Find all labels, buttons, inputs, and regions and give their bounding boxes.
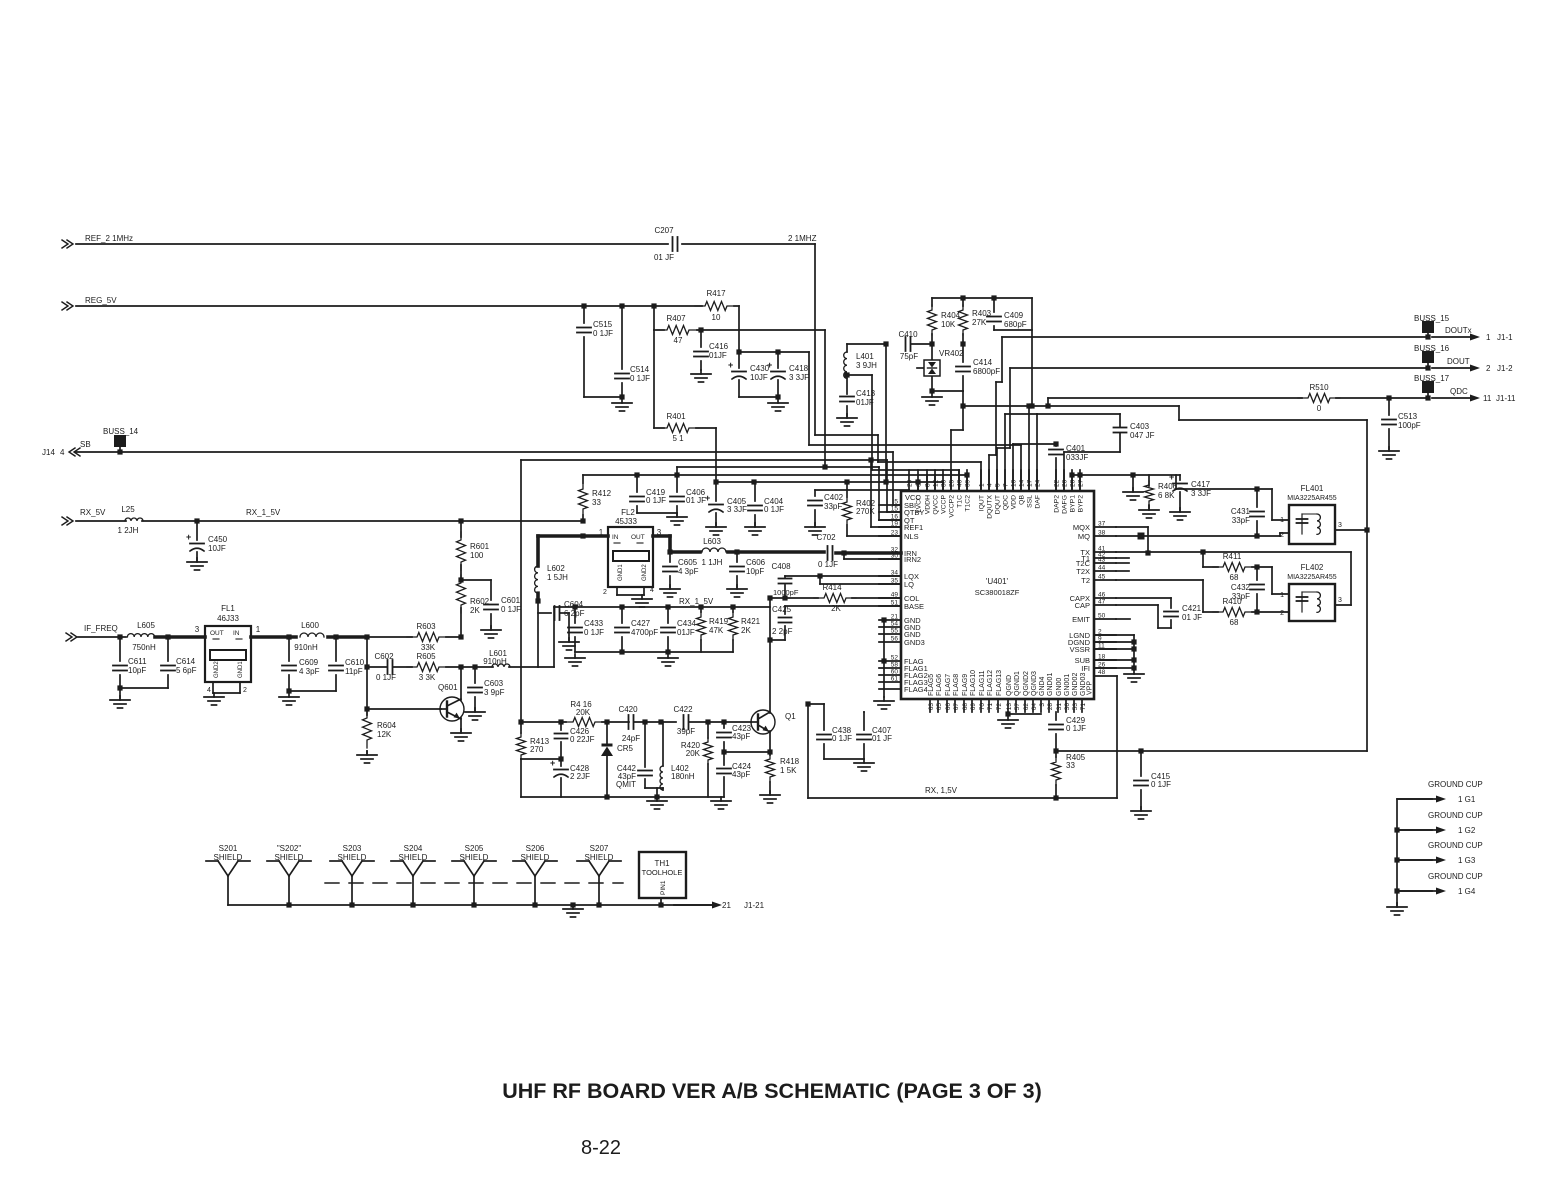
svg-text:75pF: 75pF: [900, 352, 918, 361]
svg-text:C434: C434: [677, 619, 697, 628]
svg-text:100pF: 100pF: [1398, 421, 1421, 430]
svg-text:SC380018ZF: SC380018ZF: [975, 588, 1020, 597]
svg-text:GND02: GND02: [1072, 673, 1079, 696]
svg-text:2: 2: [243, 687, 247, 694]
svg-text:J14: J14: [42, 448, 55, 457]
svg-text:39pF: 39pF: [677, 727, 695, 736]
svg-text:2: 2: [1280, 610, 1284, 617]
svg-text:TH1: TH1: [654, 859, 670, 868]
svg-text:1: 1: [979, 483, 986, 487]
svg-text:047 JF: 047 JF: [1130, 431, 1155, 440]
svg-text:47: 47: [674, 336, 683, 345]
svg-text:DOUTx: DOUTx: [1445, 326, 1472, 335]
svg-text:GND1: GND1: [618, 564, 624, 581]
svg-text:SHIELD: SHIELD: [521, 853, 550, 862]
svg-text:C450: C450: [208, 535, 228, 544]
svg-text:36: 36: [1064, 703, 1071, 711]
svg-text:DQUT: DQUT: [995, 495, 1002, 514]
svg-text:R605: R605: [416, 652, 436, 661]
svg-text:C513: C513: [1398, 412, 1418, 421]
svg-text:C605: C605: [678, 558, 698, 567]
svg-text:R421: R421: [741, 617, 761, 626]
svg-text:R414: R414: [822, 583, 842, 592]
svg-text:2 2pF: 2 2pF: [772, 627, 793, 636]
svg-text:0 1JF: 0 1JF: [818, 560, 838, 569]
svg-text:SHIELD: SHIELD: [214, 853, 243, 862]
svg-text:IQUT: IQUT: [979, 495, 986, 511]
svg-text:10JF: 10JF: [750, 373, 768, 382]
svg-text:GND1: GND1: [238, 661, 244, 678]
svg-text:7: 7: [1003, 483, 1010, 487]
svg-text:3 3JF: 3 3JF: [727, 505, 747, 514]
svg-text:01JF: 01JF: [709, 351, 727, 360]
svg-text:CAP: CAP: [1075, 601, 1090, 610]
svg-text:68: 68: [962, 703, 969, 711]
svg-text:62: 62: [1023, 703, 1030, 711]
svg-text:DOUT: DOUT: [1447, 357, 1470, 366]
svg-text:C414: C414: [973, 358, 993, 367]
svg-text:QGND2: QGND2: [1023, 671, 1030, 696]
svg-text:J1-2: J1-2: [1497, 364, 1513, 373]
svg-text:33pF: 33pF: [1232, 516, 1250, 525]
svg-text:R417: R417: [706, 289, 726, 298]
svg-text:R407: R407: [666, 314, 686, 323]
svg-text:C402: C402: [824, 493, 844, 502]
svg-text:1 G3: 1 G3: [1458, 856, 1476, 865]
svg-text:28: 28: [1047, 703, 1054, 711]
svg-text:GN00: GN00: [1056, 678, 1063, 696]
svg-text:QDC: QDC: [1450, 387, 1468, 396]
svg-text:33: 33: [1066, 761, 1075, 770]
svg-text:10K: 10K: [941, 320, 956, 329]
svg-text:S205: S205: [465, 844, 484, 853]
svg-text:C606: C606: [746, 558, 766, 567]
svg-text:C427: C427: [631, 619, 651, 628]
svg-text:RX, 1,5V: RX, 1,5V: [925, 786, 958, 795]
svg-text:Q601: Q601: [438, 683, 458, 692]
svg-text:S203: S203: [343, 844, 362, 853]
svg-text:R419: R419: [709, 617, 729, 626]
svg-text:01 JF: 01 JF: [654, 253, 674, 262]
svg-text:270K: 270K: [856, 507, 875, 516]
svg-text:IF_FREQ: IF_FREQ: [84, 624, 118, 633]
svg-text:0 1JF: 0 1JF: [630, 374, 650, 383]
svg-text:43pF: 43pF: [732, 770, 750, 779]
svg-text:2: 2: [603, 589, 607, 596]
svg-text:RX_1_5V: RX_1_5V: [246, 508, 281, 517]
svg-text:VCCP2: VCCP2: [949, 495, 956, 518]
svg-text:S206: S206: [526, 844, 545, 853]
svg-text:27K: 27K: [972, 318, 987, 327]
svg-text:OUT: OUT: [210, 630, 224, 637]
svg-text:12: 12: [933, 479, 940, 487]
svg-text:R412: R412: [592, 489, 612, 498]
svg-text:QGND: QGND: [1006, 675, 1013, 696]
svg-text:L605: L605: [137, 621, 155, 630]
svg-text:33: 33: [592, 498, 601, 507]
svg-text:C702: C702: [816, 533, 836, 542]
svg-text:BUSS_14: BUSS_14: [103, 427, 139, 436]
svg-text:11pF: 11pF: [345, 667, 363, 676]
svg-text:DAFG: DAFG: [1062, 495, 1069, 514]
svg-text:71: 71: [987, 703, 994, 711]
svg-text:"S202": "S202": [277, 844, 302, 853]
svg-text:66: 66: [945, 703, 952, 711]
svg-text:C420: C420: [618, 705, 638, 714]
svg-text:6800pF: 6800pF: [973, 367, 1000, 376]
svg-text:FLAG12: FLAG12: [987, 670, 994, 696]
svg-text:13: 13: [1006, 703, 1013, 711]
svg-text:0 22JF: 0 22JF: [570, 735, 595, 744]
svg-text:T2: T2: [1081, 576, 1090, 585]
svg-text:NLS: NLS: [904, 532, 919, 541]
svg-text:71: 71: [1080, 703, 1087, 711]
svg-text:C611: C611: [128, 657, 147, 666]
svg-text:6 8K: 6 8K: [1158, 491, 1175, 500]
svg-text:GROUND CUP: GROUND CUP: [1428, 811, 1483, 820]
svg-text:QGND3: QGND3: [1031, 671, 1038, 696]
svg-text:VSSR: VSSR: [1070, 645, 1091, 654]
svg-text:1 1JH: 1 1JH: [702, 558, 723, 567]
svg-text:3: 3: [1338, 597, 1342, 604]
svg-text:1 G1: 1 G1: [1458, 795, 1476, 804]
svg-text:BYP1: BYP1: [1070, 495, 1077, 513]
svg-text:REF_2 1MHz: REF_2 1MHz: [85, 234, 133, 243]
svg-text:17: 17: [1027, 479, 1034, 487]
svg-text:910nH: 910nH: [294, 643, 318, 652]
svg-text:20: 20: [1062, 479, 1069, 487]
svg-text:R601: R601: [470, 542, 490, 551]
svg-text:R410: R410: [1222, 597, 1242, 606]
svg-text:0 1JF: 0 1JF: [1151, 780, 1171, 789]
svg-text:IFI: IFI: [1081, 664, 1090, 673]
svg-text:3 3JF: 3 3JF: [789, 373, 809, 382]
svg-text:0 1JF: 0 1JF: [501, 605, 521, 614]
svg-text:FLAG9: FLAG9: [962, 674, 969, 696]
svg-text:C433: C433: [584, 619, 604, 628]
svg-text:VCCP: VCCP: [941, 495, 948, 514]
svg-text:33pF: 33pF: [824, 502, 842, 511]
svg-text:3 9JH: 3 9JH: [856, 361, 877, 370]
svg-text:4: 4: [60, 448, 65, 457]
svg-text:S207: S207: [590, 844, 609, 853]
svg-text:0 1JF: 0 1JF: [584, 628, 604, 637]
svg-text:+: +: [186, 532, 191, 542]
svg-text:70: 70: [979, 703, 986, 711]
svg-text:C207: C207: [654, 226, 674, 235]
svg-text:J1-11: J1-11: [1496, 394, 1516, 403]
svg-text:01 JF: 01 JF: [686, 496, 706, 505]
svg-text:1 G2: 1 G2: [1458, 826, 1476, 835]
svg-text:10pF: 10pF: [128, 666, 146, 675]
svg-text:01JF: 01JF: [677, 628, 695, 637]
svg-text:3: 3: [1039, 703, 1046, 707]
svg-text:63: 63: [928, 703, 935, 711]
svg-text:QB: QB: [1019, 495, 1026, 505]
svg-text:5: 5: [995, 483, 1002, 487]
svg-text:SHIELD: SHIELD: [275, 853, 304, 862]
svg-text:MQX: MQX: [1073, 523, 1090, 532]
svg-text:C431: C431: [1231, 507, 1251, 516]
svg-text:01 JF: 01 JF: [1182, 613, 1202, 622]
svg-text:C422: C422: [673, 705, 693, 714]
svg-text:0 1JF: 0 1JF: [646, 496, 666, 505]
svg-text:L602: L602: [547, 564, 565, 573]
svg-text:FLAG11: FLAG11: [979, 670, 986, 696]
svg-text:40: 40: [957, 479, 964, 487]
svg-text:FLAG5: FLAG5: [928, 674, 935, 696]
svg-text:1 G4: 1 G4: [1458, 887, 1476, 896]
svg-text:R603: R603: [416, 622, 436, 631]
svg-text:57: 57: [1014, 703, 1021, 711]
svg-text:SHIELD: SHIELD: [338, 853, 367, 862]
svg-text:24: 24: [1035, 479, 1042, 487]
svg-text:GN001: GN001: [1064, 674, 1071, 696]
svg-text:12K: 12K: [377, 730, 392, 739]
svg-text:DAP2: DAP2: [1054, 495, 1061, 513]
svg-text:T1C2: T1C2: [965, 495, 972, 512]
svg-text:20K: 20K: [576, 708, 591, 717]
svg-text:'U401': 'U401': [986, 577, 1009, 586]
svg-text:750nH: 750nH: [132, 643, 156, 652]
svg-text:RX_5V: RX_5V: [80, 508, 106, 517]
svg-text:39: 39: [965, 479, 972, 487]
svg-text:033JF: 033JF: [1066, 453, 1088, 462]
svg-text:25: 25: [949, 479, 956, 487]
svg-text:2 2JF: 2 2JF: [570, 772, 590, 781]
svg-text:DQUTX: DQUTX: [987, 495, 994, 519]
svg-text:5 6pF: 5 6pF: [176, 666, 197, 675]
svg-text:FLAG4: FLAG4: [904, 685, 928, 694]
svg-text:C417: C417: [1191, 480, 1211, 489]
svg-text:+: +: [728, 360, 733, 370]
svg-text:48: 48: [1098, 669, 1106, 676]
svg-text:GND03: GND03: [1080, 673, 1087, 696]
svg-text:3 3JF: 3 3JF: [1191, 489, 1211, 498]
svg-text:FLAG6: FLAG6: [936, 674, 943, 696]
svg-text:VDD: VDD: [1011, 495, 1018, 509]
svg-text:24pF: 24pF: [622, 734, 640, 743]
svg-text:4: 4: [650, 587, 654, 594]
svg-text:BYP2: BYP2: [1078, 495, 1085, 513]
svg-text:27: 27: [1078, 479, 1085, 487]
svg-text:TOOLHOLE: TOOLHOLE: [642, 868, 683, 877]
svg-text:4 3pF: 4 3pF: [678, 567, 699, 576]
svg-text:FLAG13: FLAG13: [996, 670, 1003, 696]
svg-text:2K: 2K: [470, 606, 480, 615]
svg-text:1: 1: [1280, 592, 1284, 599]
svg-text:0: 0: [1317, 404, 1322, 413]
svg-text:QMIT: QMIT: [616, 780, 636, 789]
svg-text:S204: S204: [404, 844, 423, 853]
svg-text:FLAG10: FLAG10: [970, 670, 977, 696]
svg-text:4 3pF: 4 3pF: [299, 667, 320, 676]
svg-text:21: 21: [722, 901, 731, 910]
svg-text:S201: S201: [219, 844, 238, 853]
svg-text:43pF: 43pF: [732, 732, 750, 741]
svg-text:22: 22: [1054, 479, 1061, 487]
svg-text:1 5K: 1 5K: [780, 766, 797, 775]
svg-text:QGND1: QGND1: [1014, 671, 1021, 696]
svg-text:C601: C601: [501, 596, 521, 605]
svg-text:BASE: BASE: [904, 602, 924, 611]
svg-text:C416: C416: [709, 342, 729, 351]
svg-text:REG_5V: REG_5V: [85, 296, 117, 305]
svg-text:FL2: FL2: [621, 508, 635, 517]
svg-text:L25: L25: [121, 505, 135, 514]
svg-text:2 1MHZ: 2 1MHZ: [788, 234, 817, 243]
svg-text:VPP: VPP: [1087, 681, 1094, 695]
svg-text:1: 1: [1280, 517, 1284, 524]
svg-text:14: 14: [1019, 479, 1026, 487]
svg-text:C514: C514: [630, 365, 650, 374]
svg-text:R418: R418: [780, 757, 800, 766]
svg-text:3: 3: [195, 625, 200, 634]
svg-text:0 1JF: 0 1JF: [832, 734, 852, 743]
svg-text:+: +: [767, 360, 772, 370]
svg-text:UHF RF BOARD VER A/B SCHEMATIC: UHF RF BOARD VER A/B SCHEMATIC (PAGE 3 O…: [502, 1079, 1042, 1103]
svg-text:4: 4: [987, 483, 994, 487]
svg-text:MQ: MQ: [1078, 532, 1090, 541]
svg-text:SSL: SSL: [1027, 495, 1034, 508]
svg-text:8-22: 8-22: [581, 1137, 621, 1159]
svg-text:REF1: REF1: [904, 523, 923, 532]
svg-text:R604: R604: [377, 721, 397, 730]
svg-text:FLAG8: FLAG8: [953, 674, 960, 696]
svg-text:69: 69: [970, 703, 977, 711]
svg-text:+: +: [705, 493, 710, 503]
svg-text:DAF: DAF: [1035, 495, 1042, 509]
svg-text:910nH: 910nH: [483, 657, 507, 666]
svg-text:5 1: 5 1: [672, 434, 684, 443]
svg-text:10: 10: [712, 313, 721, 322]
svg-text:FL401: FL401: [1301, 484, 1324, 493]
svg-text:+: +: [1169, 472, 1174, 482]
svg-text:01 JF: 01 JF: [872, 734, 892, 743]
svg-text:2: 2: [1280, 532, 1284, 539]
svg-text:3 9pF: 3 9pF: [484, 688, 505, 697]
svg-text:C421: C421: [1182, 604, 1202, 613]
svg-text:C410: C410: [898, 330, 918, 339]
svg-text:C603: C603: [484, 679, 504, 688]
svg-text:J1-1: J1-1: [1497, 333, 1513, 342]
svg-text:PIN1: PIN1: [660, 880, 667, 895]
svg-text:C610: C610: [345, 658, 365, 667]
svg-text:45J33: 45J33: [615, 517, 637, 526]
svg-text:1: 1: [1486, 333, 1491, 342]
svg-text:VR402: VR402: [939, 349, 964, 358]
svg-text:C409: C409: [1004, 311, 1024, 320]
svg-text:IRN2: IRN2: [904, 555, 921, 564]
svg-text:C425: C425: [772, 605, 792, 614]
svg-text:EMIT: EMIT: [1072, 615, 1090, 624]
svg-text:1000pF: 1000pF: [773, 588, 799, 597]
svg-text:11: 11: [1483, 394, 1492, 403]
svg-text:GND2: GND2: [214, 661, 220, 678]
svg-text:46J33: 46J33: [217, 614, 239, 623]
svg-text:72: 72: [996, 703, 1003, 711]
svg-text:C609: C609: [299, 658, 319, 667]
svg-text:47K: 47K: [709, 626, 724, 635]
svg-text:68: 68: [1230, 618, 1239, 627]
svg-text:28: 28: [1070, 479, 1077, 487]
svg-text:Q1: Q1: [785, 712, 796, 721]
svg-text:J1-21: J1-21: [744, 901, 765, 910]
svg-text:SHIELD: SHIELD: [585, 853, 614, 862]
svg-text:FL1: FL1: [221, 604, 235, 613]
svg-text:680pF: 680pF: [1004, 320, 1027, 329]
svg-text:20: 20: [907, 479, 914, 487]
svg-text:3: 3: [1338, 522, 1342, 529]
svg-text:FL402: FL402: [1301, 563, 1324, 572]
svg-text:4700pF: 4700pF: [631, 628, 658, 637]
svg-text:RX_1_5V: RX_1_5V: [679, 597, 714, 606]
svg-text:IN: IN: [233, 630, 240, 637]
svg-text:10JF: 10JF: [208, 544, 226, 553]
svg-text:10pF: 10pF: [746, 567, 764, 576]
svg-text:SHIELD: SHIELD: [399, 853, 428, 862]
svg-text:100: 100: [470, 551, 484, 560]
svg-text:QDC: QDC: [1003, 495, 1010, 510]
svg-text:GROUND CUP: GROUND CUP: [1428, 780, 1483, 789]
svg-text:L603: L603: [703, 537, 721, 546]
svg-text:T2X: T2X: [1076, 567, 1090, 576]
svg-text:L600: L600: [301, 621, 319, 630]
svg-text:65: 65: [936, 703, 943, 711]
svg-text:67: 67: [953, 703, 960, 711]
svg-text:53: 53: [1072, 703, 1079, 711]
svg-text:2K: 2K: [741, 626, 751, 635]
svg-text:1: 1: [256, 625, 261, 634]
svg-text:180nH: 180nH: [671, 772, 695, 781]
svg-text:C403: C403: [1130, 422, 1150, 431]
svg-text:R411: R411: [1223, 552, 1242, 561]
svg-text:64: 64: [1031, 703, 1038, 711]
svg-text:1 5JH: 1 5JH: [547, 573, 568, 582]
svg-text:68: 68: [1230, 573, 1239, 582]
svg-text:1 2JH: 1 2JH: [118, 526, 139, 535]
svg-text:GND01: GND01: [1047, 673, 1054, 696]
svg-text:C602: C602: [374, 652, 394, 661]
svg-text:QVCC: QVCC: [933, 495, 940, 515]
svg-text:20K: 20K: [686, 749, 701, 758]
svg-text:SB: SB: [80, 440, 91, 449]
svg-text:MIA3225AR455: MIA3225AR455: [1287, 574, 1337, 581]
svg-text:GROUND CUP: GROUND CUP: [1428, 841, 1483, 850]
svg-text:270: 270: [530, 745, 544, 754]
svg-text:SHIELD: SHIELD: [460, 853, 489, 862]
svg-text:0 1JF: 0 1JF: [376, 673, 396, 682]
svg-text:31: 31: [1056, 703, 1063, 711]
svg-text:T1C: T1C: [957, 495, 964, 508]
svg-text:4: 4: [207, 687, 211, 694]
svg-text:LQ: LQ: [904, 580, 914, 589]
svg-text:GROUND CUP: GROUND CUP: [1428, 872, 1483, 881]
svg-text:2: 2: [1486, 364, 1491, 373]
svg-text:33: 33: [941, 479, 948, 487]
svg-text:8: 8: [925, 483, 932, 487]
svg-text:CR5: CR5: [617, 744, 634, 753]
svg-text:C614: C614: [176, 657, 196, 666]
svg-text:C408: C408: [771, 562, 791, 571]
svg-text:VDDH: VDDH: [925, 495, 932, 514]
svg-text:GND4: GND4: [1039, 676, 1046, 696]
svg-text:C418: C418: [789, 364, 809, 373]
svg-text:0 1JF: 0 1JF: [593, 329, 613, 338]
svg-text:L401: L401: [856, 352, 874, 361]
svg-text:0 1JF: 0 1JF: [1066, 724, 1086, 733]
svg-text:FLAG7: FLAG7: [945, 674, 952, 696]
